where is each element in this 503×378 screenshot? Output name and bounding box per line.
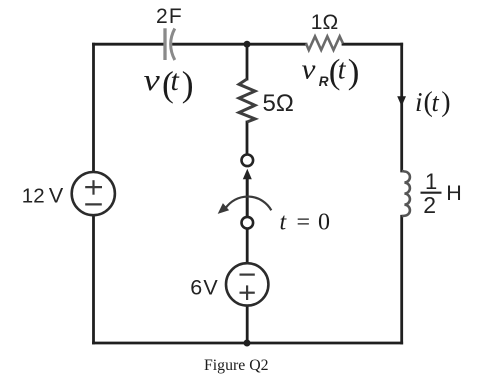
svg-text:V: V [49,183,64,207]
svg-text:H: H [446,181,462,205]
svg-text:12: 12 [22,184,45,207]
svg-text:): ) [441,87,450,118]
svg-text:1: 1 [425,169,437,194]
svg-text:2F: 2F [156,5,183,28]
svg-text:1Ω: 1Ω [311,11,338,34]
svg-text:=: = [297,209,311,235]
svg-text:t: t [432,88,440,117]
svg-text:Figure Q2: Figure Q2 [204,357,269,374]
svg-text:t: t [338,55,347,86]
svg-text:i: i [415,87,423,117]
svg-text:): ) [348,52,360,91]
svg-text:R: R [319,74,329,89]
svg-text:5Ω: 5Ω [263,90,294,117]
svg-text:v: v [144,63,161,97]
svg-text:0: 0 [318,209,330,235]
svg-text:t: t [171,64,180,97]
svg-text:2: 2 [423,192,436,218]
svg-text:v: v [302,55,317,85]
svg-text:6V: 6V [190,276,219,300]
svg-text:): ) [182,64,194,104]
svg-text:t: t [280,209,288,235]
